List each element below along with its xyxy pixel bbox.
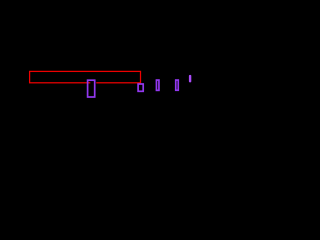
- purple glyph box B: [176, 80, 179, 90]
- small purple glyph box at red corner: [138, 84, 143, 91]
- purple glyph box A: [156, 80, 159, 90]
- red bordered box: [30, 71, 141, 82]
- occluder over red bottom edge: [90, 81, 96, 84]
- big purple glyph box: [88, 80, 95, 97]
- purple apostrophe: [189, 75, 191, 83]
